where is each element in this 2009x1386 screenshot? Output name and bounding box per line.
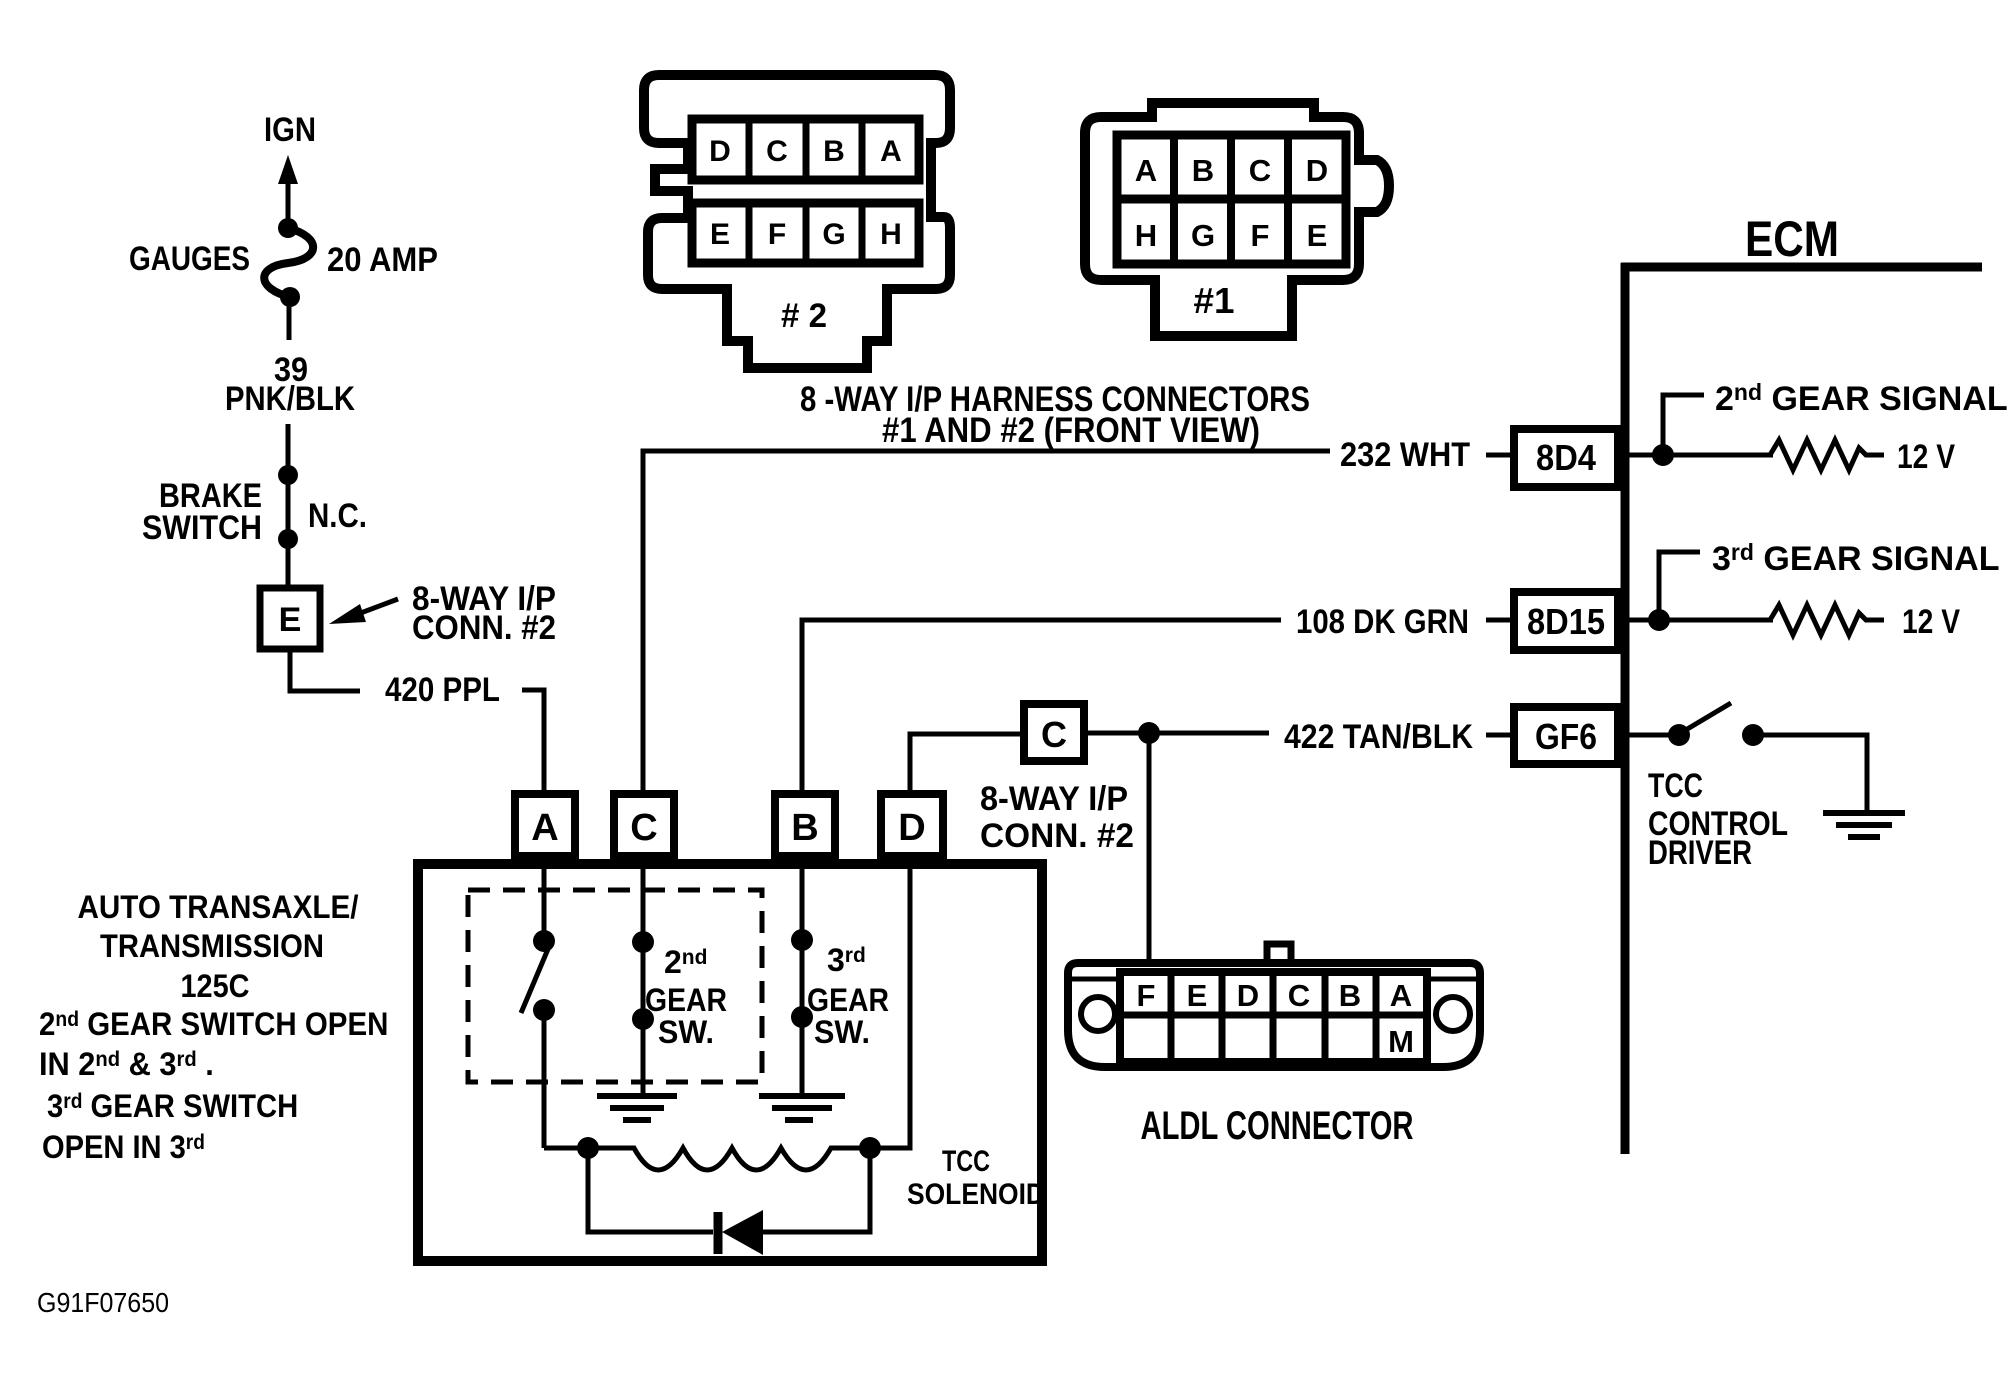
svg-text:G: G <box>822 218 845 251</box>
resistor R 3rd gear pull-up <box>1770 605 1884 635</box>
svg-text:B: B <box>823 135 845 168</box>
connector #1 pin row A B C D <box>1117 135 1346 199</box>
wire junction to ALDL <box>1147 733 1152 963</box>
svg-text:AUTO TRANSAXLE/: AUTO TRANSAXLE/ <box>78 889 359 925</box>
label 422 TAN/BLK <box>1284 718 1473 756</box>
fuse GAUGES 20 AMP <box>264 218 313 340</box>
svg-text:3rd GEAR SIGNAL: 3rd GEAR SIGNAL <box>1712 539 2000 578</box>
wire 3rd gear signal tap <box>1622 552 1773 631</box>
arrow to pin E <box>329 599 398 624</box>
svg-text:F: F <box>1137 978 1156 1013</box>
connector pin A (transmission) <box>515 794 575 856</box>
connector pin D (transmission) <box>881 794 943 856</box>
label 3rd GEAR SW. <box>807 942 889 1050</box>
connector #1 pin row H G F E <box>1117 199 1346 264</box>
connector #2 pin row E F G H <box>692 203 919 263</box>
wire 420 PPL to pin A <box>522 690 544 791</box>
svg-text:SW.: SW. <box>658 1014 714 1050</box>
auto transaxle/transmission 125C box <box>418 864 1042 1261</box>
wire 39 PNK/BLK <box>286 424 291 475</box>
svg-text:B: B <box>1192 153 1214 188</box>
svg-text:CONN. #2: CONN. #2 <box>412 609 556 647</box>
ALDL pin grid F E D C B A / M <box>1120 972 1427 1062</box>
svg-text:A: A <box>1135 153 1157 188</box>
svg-text:A: A <box>880 135 902 168</box>
label 8-WAY I/P CONN. #2 (pin C) <box>980 780 1134 855</box>
ground (TCC driver) <box>1823 813 1905 837</box>
svg-text:H: H <box>1135 218 1157 253</box>
resistor R 2nd gear pull-up <box>1770 440 1884 470</box>
label 20 AMP <box>327 241 438 279</box>
label 12 V (3rd) <box>1902 603 1960 641</box>
connector pin B (transmission) <box>775 794 835 856</box>
wire pin D leg to coil <box>870 864 910 1148</box>
TCC apply switch (open, from pin A) <box>521 864 555 1148</box>
svg-text:E: E <box>279 601 302 639</box>
svg-text:C: C <box>630 807 657 849</box>
connector #2 tab slot <box>663 175 700 185</box>
ECM pin GF6 <box>1486 707 1618 764</box>
ECM pin 8D4 <box>1486 429 1618 487</box>
svg-text:8D4: 8D4 <box>1536 437 1596 478</box>
svg-text:F: F <box>1251 218 1270 253</box>
svg-text:GAUGES: GAUGES <box>129 240 250 278</box>
ground (3rd gear switch) <box>759 1096 845 1120</box>
svg-text:TCC: TCC <box>942 1145 990 1178</box>
svg-text:#1: #1 <box>1194 280 1235 321</box>
label 2nd GEAR SW. <box>645 944 727 1050</box>
TCC solenoid coil <box>577 1137 881 1170</box>
label 8-WAY I/P CONN. #2 (pin E) <box>412 580 556 647</box>
svg-text:D: D <box>1237 978 1259 1013</box>
svg-text:H: H <box>880 218 902 251</box>
svg-text:A: A <box>531 807 558 849</box>
svg-text:IGN: IGN <box>264 111 316 149</box>
wire IGN feed with arrow <box>278 155 298 228</box>
svg-text:B: B <box>791 807 818 849</box>
svg-text:G: G <box>1191 218 1215 253</box>
label N.C. <box>308 497 367 535</box>
svg-text:20 AMP: 20 AMP <box>327 241 438 279</box>
label 232 WHT <box>1340 436 1470 474</box>
TCC control driver switch <box>1622 703 1764 746</box>
label TCC SOLENOID <box>907 1145 1045 1211</box>
svg-text:108 DK GRN: 108 DK GRN <box>1296 603 1469 641</box>
connector #1 body (8-way I/P harness connector, front view) <box>1085 103 1389 336</box>
label ECM <box>1745 211 1839 267</box>
dashed enclosure (2nd gear switch assembly) <box>468 890 762 1082</box>
connector pin C (transmission) <box>614 794 674 856</box>
svg-text:#1 AND #2 (FRONT VIEW): #1 AND #2 (FRONT VIEW) <box>882 411 1260 450</box>
svg-text:8-WAY I/P: 8-WAY I/P <box>980 780 1128 818</box>
svg-text:12 V: 12 V <box>1897 438 1955 476</box>
svg-text:TRANSMISSION: TRANSMISSION <box>100 928 324 964</box>
label 12 V (2nd) <box>1897 438 1955 476</box>
connector pin E of 8-way I/P conn #2 <box>260 588 320 649</box>
svg-text:PNK/BLK: PNK/BLK <box>225 380 355 418</box>
label 39 PNK/BLK <box>225 351 355 418</box>
ground (2nd gear switch) <box>597 1096 677 1120</box>
ECM boundary top line <box>1621 263 1982 272</box>
svg-text:C: C <box>766 135 788 168</box>
svg-text:422 TAN/BLK: 422 TAN/BLK <box>1284 718 1473 756</box>
label 2nd GEAR SIGNAL <box>1715 379 2008 418</box>
connector #2 body (8-way I/P harness connector, front view) <box>644 75 950 368</box>
label BRAKE SWITCH <box>142 477 262 547</box>
connector pin C of 8-way I/P conn #2 <box>1024 704 1084 761</box>
svg-text:# 2: # 2 <box>781 297 827 335</box>
svg-text:CONN. #2: CONN. #2 <box>980 817 1134 855</box>
2nd gear switch (closed, from pin C) <box>632 864 654 1094</box>
label GAUGES <box>129 240 250 278</box>
svg-text:8D15: 8D15 <box>1527 601 1605 642</box>
svg-text:420 PPL: 420 PPL <box>385 671 500 709</box>
wire 422 TAN/BLK with junction <box>1087 722 1269 744</box>
label ALDL CONNECTOR <box>1141 1104 1414 1148</box>
svg-text:D: D <box>898 807 925 849</box>
label 3rd GEAR SIGNAL <box>1712 539 2000 578</box>
ECM pin 8D15 <box>1486 592 1618 650</box>
svg-text:GF6: GF6 <box>1535 716 1597 757</box>
ECM boundary vertical line <box>1621 263 1630 1154</box>
label G91F07650 <box>37 1287 169 1318</box>
svg-text:GEAR: GEAR <box>807 982 889 1018</box>
label #1 <box>1194 280 1235 321</box>
svg-text:E: E <box>1307 218 1328 253</box>
wire pin D to conn C <box>910 734 1021 791</box>
svg-text:N.C.: N.C. <box>308 497 367 535</box>
svg-text:C: C <box>1288 978 1310 1013</box>
svg-text:E: E <box>710 218 730 251</box>
3rd gear switch (closed, from pin B) <box>791 864 813 1094</box>
svg-text:C: C <box>1249 153 1271 188</box>
label # 2 <box>781 297 827 335</box>
node IGN <box>264 111 316 149</box>
svg-text:C: C <box>1041 714 1067 755</box>
svg-text:ALDL CONNECTOR: ALDL CONNECTOR <box>1141 1104 1414 1148</box>
label 420 PPL <box>385 671 500 709</box>
wire pin A leg to coil <box>544 1146 588 1151</box>
svg-text:OPEN IN 3rd: OPEN IN 3rd <box>42 1130 205 1166</box>
svg-text:SWITCH: SWITCH <box>142 509 262 547</box>
svg-text:D: D <box>1306 153 1328 188</box>
svg-text:SW.: SW. <box>814 1014 870 1050</box>
svg-text:G91F07650: G91F07650 <box>37 1287 169 1318</box>
diode D1 across coil <box>588 1148 870 1255</box>
svg-text:125C: 125C <box>181 968 250 1004</box>
label 108 DK GRN <box>1296 603 1469 641</box>
wire 108 DK GRN <box>802 620 1281 791</box>
svg-text:SOLENOID: SOLENOID <box>907 1178 1045 1211</box>
svg-text:3rd GEAR SWITCH: 3rd GEAR SWITCH <box>47 1089 298 1125</box>
svg-text:F: F <box>768 218 786 251</box>
wire 232 WHT <box>643 451 1330 791</box>
brake switch N.C. <box>278 465 298 585</box>
svg-text:232 WHT: 232 WHT <box>1340 436 1470 474</box>
svg-text:TCC: TCC <box>1648 767 1703 805</box>
wire 420 PPL from pin E <box>290 652 360 691</box>
svg-text:D: D <box>709 135 731 168</box>
label TCC CONTROL DRIVER <box>1648 767 1788 872</box>
ALDL connector body <box>1068 944 1480 1067</box>
svg-text:A: A <box>1390 978 1412 1013</box>
connector #2 pin row D C B A <box>692 119 919 180</box>
svg-text:ECM: ECM <box>1745 211 1839 267</box>
wire 2nd gear signal tap <box>1622 395 1773 466</box>
svg-text:12 V: 12 V <box>1902 603 1960 641</box>
svg-text:M: M <box>1388 1024 1414 1059</box>
svg-text:GEAR: GEAR <box>645 982 727 1018</box>
svg-text:E: E <box>1187 978 1208 1013</box>
label AUTO TRANSAXLE/ TRANSMISSION 125C notes <box>39 889 388 1165</box>
svg-text:B: B <box>1339 978 1361 1013</box>
svg-text:2nd GEAR SWITCH OPEN: 2nd GEAR SWITCH OPEN <box>39 1006 388 1042</box>
wire TCC driver to ground <box>1753 735 1867 813</box>
svg-text:DRIVER: DRIVER <box>1648 834 1752 872</box>
label 8 -WAY I/P HARNESS CONNECTORS #1 AND #2 (FRONT VIEW) <box>800 380 1310 450</box>
